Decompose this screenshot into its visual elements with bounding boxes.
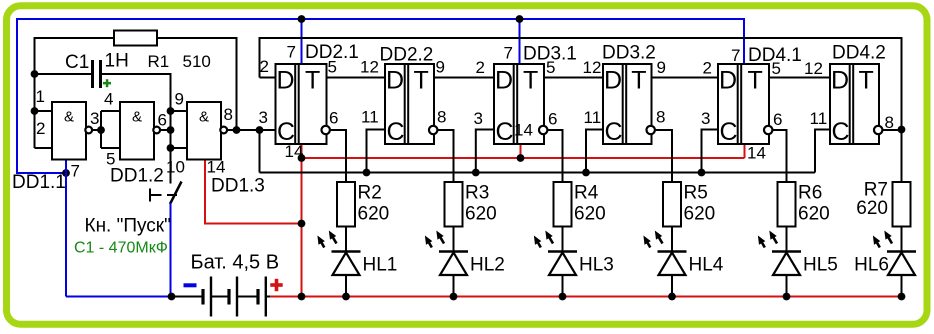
resistor R2 [337,182,355,227]
wire: DD2.1 pin 3 stub [260,129,276,131]
svg-text:5: 5 [546,58,555,77]
wire: C1 right wire to DD1.3 inputs [102,74,171,148]
junction: minus bus at DD3.1 pin 7 [516,15,524,23]
DD1.3 pin labels 9,10,8,14 [166,90,233,177]
junction: clock bus at DD3.1 [472,169,480,177]
svg-text:6: 6 [329,109,338,128]
junction: clock bus at DD4.1 [698,169,706,177]
junction: clock bus at DD3.2 [582,169,590,177]
junction: clock node at DD2.1 pin 3 [256,126,264,134]
junction: plus rail at HL3 [559,293,567,301]
D flip-flop DD3.1 [494,64,547,146]
svg-text:9: 9 [175,90,184,109]
junction: DD1.2 input node [97,126,105,134]
wire: DD3.2 inverted output to resistor [655,130,672,182]
wire: clock bus horizontal [260,172,816,174]
svg-text:C: C [495,118,513,146]
svg-text:12: 12 [804,59,823,78]
junction: button / battery minus node [168,293,176,301]
wire: DD2.2 inverted output to resistor [437,130,453,182]
battery plus mark (red) [270,279,282,291]
svg-text:1Н: 1Н [105,51,129,72]
DD3.1 pin labels [474,44,558,140]
svg-text:HL6: HL6 [854,255,889,276]
junction: plus rail at DD3.1 pin 14 [517,154,525,162]
svg-text:С1 - 470МкФ: С1 - 470МкФ [74,240,168,257]
junction: DD1.1 pin 7 node [62,169,70,177]
DD1.1 pin labels 1,2,3,7 [36,87,100,181]
wire: R4 to HL3 [562,227,564,253]
svg-text:HL5: HL5 [803,255,838,276]
wire: DD1.1 pin 2 stub [35,147,53,149]
junction: plus rail at DD2.1 pin 14 [298,154,306,162]
svg-text:7: 7 [287,43,296,62]
wire: plus rail to DD4.1 pin 14 (red) [302,157,745,159]
junction: DD1.3 pin 10 node [167,144,175,152]
svg-text:1: 1 [36,87,45,106]
svg-text:8: 8 [224,105,233,124]
wire: clock feed to DD3.2 C input [586,130,603,173]
D flip-flop DD2.2 [385,64,437,146]
svg-text:D: D [495,67,513,95]
push button SB Пуск: pin 10 terminal [170,148,172,184]
wire: DD1.3 output node [227,129,260,131]
svg-text:5: 5 [328,58,337,77]
svg-text:4: 4 [104,90,113,109]
svg-text:14: 14 [207,158,226,177]
svg-text:7: 7 [504,44,513,63]
wire: button to minus rail (blue) [170,203,172,297]
svg-text:D: D [276,67,294,95]
svg-text:&: & [64,109,74,126]
wire: D input chain into DD4.1 [652,77,719,79]
wire: clock bus drop [259,130,261,173]
DD1.2 pin labels 4,5,6 [104,90,167,169]
junction: minus bus at DD2.1 pin 7 [298,15,306,23]
wire: DD1.2 pin 5 stub [101,147,120,149]
wire: C1 left wire [35,73,92,75]
wire: R3 to HL2 [453,227,455,253]
wire: D input chain into DD3.1 [434,77,494,79]
svg-text:C: C [386,118,404,146]
svg-text:D: D [604,67,622,95]
push button actuator [150,189,177,202]
resistor R1 [114,31,157,46]
junction: DD1.3 input node top [167,107,175,115]
svg-text:D: D [386,67,404,95]
junction: DD1.3 input node mid [167,126,175,134]
svg-text:11: 11 [361,108,379,127]
resistor R3 [445,182,463,227]
junction: clock bus at DD2.2 [363,169,371,177]
wire: HL5 to plus rail [786,275,788,297]
svg-text:D: D [719,67,737,95]
wire: minus drop to DD3.1 pin 7 (blue) [519,19,521,64]
svg-text:DD1.3: DD1.3 [211,176,265,197]
wire: D input chain into DD3.2 [544,77,603,79]
svg-text:DD2.2: DD2.2 [380,45,434,66]
svg-text:620: 620 [856,198,888,219]
svg-text:11: 11 [584,108,602,127]
wire: D input chain into DD2.2 [327,77,386,79]
push button lever [170,182,182,205]
svg-text:DD4.2: DD4.2 [832,43,886,64]
wire: R7 to HL6 [901,227,903,253]
svg-text:14: 14 [514,121,533,140]
wire: HL2 to plus rail [453,275,455,297]
NAND gate DD1.3 [187,102,227,160]
wire: DD1.2 pin 4 stub [101,110,120,112]
DD2.2 pin labels [360,58,446,127]
wire: DD4.1 inverted output to resistor [772,130,786,182]
svg-text:510: 510 [183,52,211,71]
svg-text:&: & [132,109,142,126]
LED HL1 [317,231,360,276]
svg-text:620: 620 [465,204,497,225]
resistor R4 [554,182,572,227]
wire: DD1.3 pin 10 stub [171,147,188,149]
wire: clock feed to DD3.1 C input [476,130,494,173]
wire: minus drop to DD2.1 pin 7 (blue) [301,19,303,64]
wire: R2 to HL1 [345,227,347,253]
resistor R6 [778,182,796,227]
wire: plus branch to DD1.3 pin 14 (red) [204,223,302,225]
svg-text:620: 620 [574,204,606,225]
wire: DD1.1 output to DD1.2 inputs [91,129,101,131]
svg-text:7: 7 [71,162,80,181]
svg-text:620: 620 [684,204,716,225]
svg-text:3: 3 [90,109,99,128]
wire: clock feed to DD2.2 C input [367,130,386,173]
wire: minus bus left vertical (blue) [16,18,18,174]
junction: battery plus node [298,293,306,301]
svg-text:C1: C1 [65,52,89,73]
junction: plus rail at HL5 [783,293,791,301]
NAND gate DD1.1 [52,102,92,160]
wire: clock feed to DD4.1 C input [702,130,719,173]
wire: clock feed to DD4.2 C input [815,130,830,173]
DD4.1 pin labels [701,46,782,163]
svg-text:5: 5 [772,59,781,78]
svg-text:10: 10 [166,158,185,177]
wire: HL3 to plus rail [562,275,564,297]
svg-text:6: 6 [773,110,782,129]
svg-text:12: 12 [583,58,602,77]
svg-text:2: 2 [476,58,485,77]
svg-text:Бат. 4,5 В: Бат. 4,5 В [191,252,280,274]
wire: shift feedback top bus [260,38,902,130]
wire: DD1.1 pin 1 stub [35,110,53,112]
svg-text:C: C [719,118,737,146]
NAND gate DD1.2 [120,102,160,160]
svg-text:HL1: HL1 [363,255,398,276]
svg-text:8: 8 [656,108,665,127]
wire: DD3.1 inverted output to resistor [547,130,562,182]
battery GB Бат. 4,5 В [172,277,271,317]
svg-text:T: T [305,67,320,95]
D flip-flop DD4.1 [718,64,772,146]
label R1 510 [148,52,211,71]
DD2.1 pin labels [259,43,339,162]
svg-text:2: 2 [260,57,269,76]
svg-text:9: 9 [657,58,666,77]
junction: DD4.2 output feedback node [898,126,906,134]
svg-text:&: & [199,109,209,126]
svg-text:HL4: HL4 [689,255,724,276]
label R5 620 [684,183,716,225]
battery minus mark (blue) [184,283,197,287]
svg-text:R2: R2 [358,183,382,204]
svg-text:T: T [747,67,762,95]
svg-text:6: 6 [158,111,167,130]
label R2 620 [358,183,390,225]
LED HL2 [425,231,468,276]
junction: plus rail at HL4 [668,293,676,301]
wire: minus feed to DD1.1 pin 7 (blue) [16,172,66,174]
wire: DD1.2 output to DD1.3 inputs [158,129,171,131]
resistor R5 [663,182,681,227]
wire: DD2.1 inverted output to resistor [330,130,346,182]
wire: R5 to HL4 [671,227,673,253]
wire: minus drop to DD4.1 pin 7 (blue) [743,18,745,65]
wire: bottom minus rail to battery minus (blue) [66,296,172,298]
svg-text:T: T [631,67,646,95]
junction: plus rail at HL6 [898,293,906,301]
wire: DD4.1 pin 14 riser (red) [744,143,746,158]
junction: plus rail at HL1 [342,293,350,301]
resistor R7 [893,182,911,227]
svg-text:R6: R6 [798,183,822,204]
wire: HL4 to plus rail [671,275,673,297]
wire: DD1.1 pin 7 down to bottom minus rail (blue) [65,160,67,297]
svg-text:620: 620 [358,204,390,225]
svg-text:D: D [831,67,849,95]
label R4 620 [574,183,606,225]
wire: plus column DD2.1 pin 14 to battery plus (red) [301,144,303,297]
svg-text:8: 8 [885,113,894,132]
LED HL5 [758,231,801,276]
svg-text:9: 9 [436,58,445,77]
LED HL3 [534,231,577,276]
wire: bottom plus rail to LED anodes (red) [269,296,902,298]
wire: DD3.1 pin 14 riser (red) [520,143,522,158]
wire: HL6 to plus rail [901,275,903,297]
LED HL4 [643,231,686,276]
wire: R1 top feedback wire [35,38,237,148]
wire: HL1 to plus rail [345,275,347,297]
svg-text:11: 11 [810,109,828,128]
wire: DD4.2 inverted output to resistor [882,130,901,182]
LED HL6 [873,231,916,276]
svg-text:2: 2 [36,119,45,138]
svg-text:R4: R4 [574,183,599,204]
svg-text:DD1.1: DD1.1 [12,172,66,193]
svg-text:6: 6 [548,110,557,129]
junction: C1 left node [31,70,39,78]
svg-text:3: 3 [701,109,710,128]
svg-text:14: 14 [285,142,304,161]
label R3 620 [465,183,497,225]
svg-text:7: 7 [731,46,740,65]
svg-text:Кн. "Пуск": Кн. "Пуск" [85,216,171,237]
junction: plus rail at HL2 [450,293,458,301]
svg-text:R5: R5 [684,183,708,204]
svg-text:8: 8 [437,108,446,127]
svg-text:HL2: HL2 [470,255,505,276]
svg-text:DD3.2: DD3.2 [602,43,656,64]
wire: DD2.1 pin 2 stub [260,77,276,79]
svg-text:620: 620 [798,204,830,225]
junction: DD1.1 pin 1 node [31,107,39,115]
junction: plus branch node [298,220,306,228]
D flip-flop DD3.2 [603,64,655,146]
svg-text:T: T [413,67,428,95]
capacitor C1 [93,60,101,88]
svg-text:2: 2 [703,59,712,78]
D flip-flop DD2.1 [276,64,330,146]
D flip-flop DD4.2 [830,64,882,146]
wire: minus bus top horizontal (blue) [16,18,744,20]
svg-text:R1: R1 [148,52,170,71]
svg-text:T: T [858,67,873,95]
svg-text:C: C [604,118,622,146]
svg-text:HL3: HL3 [579,255,614,276]
svg-text:R3: R3 [465,183,489,204]
wire: DD1.3 pin 14 riser (red) [204,159,206,224]
wire: D input chain into DD4.2 [769,77,830,79]
svg-text:DD1.2: DD1.2 [110,166,164,187]
DD4.2 pin labels 12,11,8 [804,59,894,132]
wire: R6 to HL5 [786,227,788,253]
DD3.2 pin labels [583,58,666,127]
label R7 620 [856,180,888,220]
polarity plus mark of C1 (green) [103,79,111,87]
svg-text:3: 3 [259,108,268,127]
wire: DD1.3 pin 9 stub [171,110,188,112]
svg-text:12: 12 [360,58,379,77]
svg-text:T: T [523,67,538,95]
junction: oscillator output / R1 [233,126,241,134]
svg-text:C: C [831,118,849,146]
label R6 620 [798,183,830,225]
wire: DD1.2 input tie bar [100,111,102,148]
svg-text:3: 3 [474,109,483,128]
svg-text:14: 14 [747,144,766,163]
